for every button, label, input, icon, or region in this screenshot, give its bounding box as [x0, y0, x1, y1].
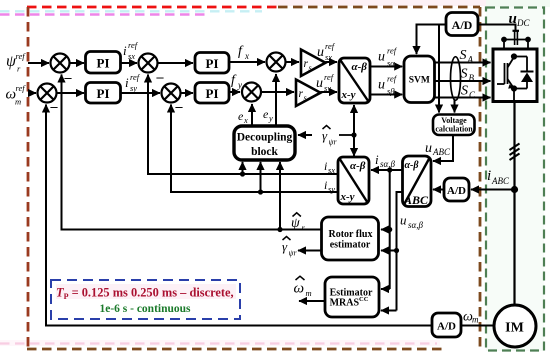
red dashed top border (control system boundary) [27, 6, 278, 9]
svg-text:x: x [243, 115, 248, 125]
svg-text:u: u [378, 50, 385, 65]
svg-text:S: S [460, 48, 467, 63]
PI controller PI1 [86, 52, 121, 74]
wire PI1 to S3 [121, 62, 138, 64]
power section background (inverter/motor zone) [486, 7, 544, 351]
wire e_x to M2 [251, 104, 253, 126]
svg-text:ω: ω [294, 281, 305, 297]
wire B1 to SVM upper [370, 66, 402, 68]
svg-text:ref: ref [325, 41, 336, 51]
svg-text:i: i [125, 75, 129, 90]
label i_sx [324, 159, 335, 175]
svg-text:γ: γ [282, 239, 288, 254]
wire i_s alpha beta down branch [389, 170, 391, 289]
brown dashed bottom border [27, 348, 444, 351]
wire u branch into MRAS estimator [381, 310, 397, 312]
pink dashed line top [0, 13, 208, 15]
wire omega hat output arrow [299, 300, 325, 302]
svg-text:ψr: ψr [289, 249, 298, 258]
svg-text:α-β: α-β [352, 61, 368, 73]
wire M1 to gain T1 [286, 61, 300, 63]
label i_s alpha beta [375, 152, 395, 169]
label psi_r ref [6, 51, 26, 74]
svg-text:sx: sx [325, 52, 332, 62]
junction dot i_s alpha beta tap [387, 167, 392, 172]
svg-text:–: – [175, 100, 184, 115]
summing junction S3 [139, 54, 158, 73]
wire gamma output arrow [298, 250, 322, 252]
label e_y [263, 107, 273, 123]
junction dot u branch [394, 248, 399, 253]
svg-text:m: m [306, 288, 312, 298]
svg-text:u: u [509, 11, 517, 27]
label gamma hat psi r (decoupling input) [322, 126, 337, 147]
wire node to A/D current [471, 189, 515, 191]
svg-text:ref: ref [387, 46, 398, 56]
svg-text:DC: DC [516, 18, 530, 28]
svg-text:sx: sx [128, 51, 135, 61]
svg-text:–: – [50, 100, 59, 115]
inverter block [493, 49, 537, 102]
wire u_s alpha beta from B3 [397, 192, 403, 311]
junction dot to flux estimator [387, 227, 392, 232]
svg-text:ref: ref [387, 74, 398, 84]
label i_sy [324, 178, 335, 194]
wire A/D to ABC transform [433, 189, 444, 191]
svg-text:ref: ref [128, 40, 139, 50]
wire PI3 to M1 [229, 61, 265, 63]
label u_s alpha beta [400, 213, 423, 231]
svg-text:s: s [309, 64, 312, 73]
wire u_DC branch to voltage calculation [438, 25, 440, 113]
label u_s alpha ref [378, 46, 398, 69]
svg-text:x-y: x-y [341, 89, 356, 101]
wire i branch into rotor flux estimator [381, 229, 390, 231]
svg-text:u: u [425, 141, 432, 156]
transform block B1 alpha-beta to x-y [339, 58, 370, 103]
wire gamma up into B1 [353, 105, 355, 135]
three-phase cable slashes [510, 144, 520, 161]
svg-text:S: S [461, 84, 468, 99]
label e_x [238, 109, 248, 125]
node i_ABC tap [511, 186, 518, 193]
wire gamma down into B2 [353, 135, 355, 156]
wire i_sy from B2 to S4 [171, 105, 338, 193]
wire B3 to B2 (i_s alpha beta) [371, 169, 403, 171]
bottom pink tint strip [0, 340, 440, 346]
wire gamma into decoupling [339, 134, 354, 136]
wire psi into decoupling block [279, 162, 281, 230]
svg-text:ref: ref [130, 72, 141, 82]
wire PI2 to S4 [121, 92, 161, 94]
IGBT Q1 with freewheeling diode D1 [497, 54, 534, 101]
wire i_sx into decoupling block [242, 162, 244, 174]
svg-text:TP = 0.125 ms 0.250 ms – discr: TP = 0.125 ms 0.250 ms – discrete, [56, 286, 234, 302]
svg-text:γ: γ [322, 128, 328, 143]
multiplier junction M1 [267, 53, 286, 72]
MRAS estimator block [325, 277, 379, 317]
A/D converter bottom (speed) [432, 313, 461, 337]
gain block T2 rs [296, 80, 321, 107]
svg-text:A/D: A/D [447, 185, 466, 197]
wire PI4 to M2 [229, 91, 240, 93]
wire T1 to transform block B1 [326, 61, 338, 63]
label omega m (speed) [463, 310, 479, 325]
junction dot i_sx to decoupling [240, 171, 245, 176]
svg-text:PI: PI [206, 56, 219, 71]
A/D converter middle (current) [444, 178, 469, 201]
wire i_sx from B2 to S3 [148, 75, 338, 175]
svg-text:ψ: ψ [291, 216, 300, 231]
cyan dashed line (sampling boundary) [0, 10, 262, 12]
svg-text:sα: sα [387, 58, 395, 68]
svg-text:i: i [324, 178, 327, 192]
svg-text:i: i [324, 159, 327, 173]
svg-text:i: i [487, 168, 491, 184]
svg-text:ABC: ABC [432, 147, 451, 157]
svg-text:m: m [15, 97, 21, 107]
decoupling block [234, 126, 295, 160]
svg-text:A/D: A/D [452, 18, 473, 32]
wire S1 to PI1 [70, 62, 85, 64]
brown dashed top border (converter boundary) [278, 6, 480, 9]
svg-text:A/D: A/D [437, 321, 456, 333]
svg-text:s: s [304, 94, 307, 103]
svg-text:α-β: α-β [350, 160, 366, 172]
wire IM to A/D speed [461, 325, 494, 327]
brick dashed left border [27, 7, 30, 349]
svg-text:i: i [123, 43, 127, 58]
label i_sy ref [125, 72, 141, 93]
svg-text:IM: IM [505, 321, 524, 336]
svg-text:Rotor flux: Rotor flux [329, 229, 373, 240]
pink dashed line bottom [0, 342, 437, 344]
svg-text:i: i [375, 152, 379, 167]
wire SVM to inverter S_A [435, 62, 491, 64]
summing junction S4 [162, 84, 181, 103]
svg-text:calculation: calculation [435, 125, 473, 134]
PI controller PI2 [86, 83, 121, 104]
svg-text:y: y [237, 80, 242, 90]
svg-text:block: block [251, 146, 278, 158]
label S_A [460, 48, 474, 65]
voltage calculation block [433, 115, 475, 136]
label f_x [238, 44, 249, 61]
svg-text:u: u [378, 78, 385, 93]
svg-text:PI: PI [97, 56, 110, 71]
SVM block [404, 56, 435, 103]
svg-text:sy: sy [328, 184, 335, 194]
label gamma hat psi r (output) [282, 237, 297, 258]
wire SVM to inverter S_C [435, 97, 491, 99]
wire voltage calculation to ABC transform (u_ABC) [433, 135, 453, 161]
svg-text:u: u [400, 213, 407, 228]
green dashed box (physical plant boundary) [486, 8, 544, 351]
junction dot i_sy to decoupling [258, 189, 263, 194]
svg-text:sx: sx [328, 165, 335, 175]
svg-text:–: – [64, 71, 73, 86]
svg-text:α-β: α-β [405, 160, 420, 171]
label u_sx ref [317, 41, 336, 62]
induction motor IM [494, 305, 536, 347]
svg-text:sα,β: sα,β [380, 159, 395, 169]
multiplier junction M2 [242, 83, 261, 102]
wire B1 to SVM lower [370, 94, 402, 96]
gamma psi r node and wires [351, 132, 356, 137]
wire e_y to M1 [275, 74, 277, 126]
blue dashed annotation box [51, 280, 240, 319]
svg-text:f: f [231, 73, 237, 88]
wire psi_r feedback to S1 [62, 75, 322, 230]
svg-text:S: S [461, 67, 468, 82]
label f_y [231, 73, 242, 90]
svg-text:ref: ref [16, 51, 27, 61]
transform block B2 alpha-beta to x-y (currents) [338, 157, 369, 204]
wire u branch into rotor flux estimator [381, 250, 397, 252]
wire omega feedback to S2 [46, 105, 432, 326]
svg-text:r: r [17, 64, 21, 74]
label psi hat r (flux feedback) [291, 213, 306, 233]
svg-text:ref: ref [16, 83, 27, 93]
wire A/D to SVM (u_DC sample) [417, 25, 447, 55]
svg-text:PI: PI [206, 86, 219, 101]
svg-text:ABC: ABC [403, 193, 429, 207]
bundling ellipse over S wires [451, 57, 461, 101]
label u_s beta ref [378, 74, 398, 97]
label i_ABC [487, 168, 510, 186]
svg-text:C: C [469, 90, 476, 100]
svg-text:–: – [156, 70, 165, 85]
brown dashed right border [479, 7, 482, 349]
DC link capacitor [502, 31, 531, 49]
junction dot psi to decoupling [277, 227, 282, 232]
svg-text:1e-6 s - continuous: 1e-6 s - continuous [99, 303, 191, 315]
svg-text:A: A [467, 55, 474, 65]
svg-text:ref: ref [324, 72, 335, 82]
svg-text:y: y [268, 113, 273, 123]
label omega hat m [294, 276, 312, 298]
wire S bundle to voltage calculation [454, 100, 456, 113]
transform block B3 ABC to alpha-beta [403, 156, 432, 207]
svg-text:f: f [238, 44, 244, 59]
wire omega ref input [28, 92, 36, 94]
svg-text:x: x [244, 51, 249, 61]
wire S2 to PI2 [57, 92, 85, 94]
svg-text:sy: sy [324, 83, 331, 93]
svg-text:sy: sy [130, 83, 137, 93]
label S_C [461, 84, 476, 101]
label u_sy ref [316, 72, 335, 93]
wire SVM to inverter S_B [435, 80, 491, 82]
svg-text:Decoupling: Decoupling [237, 132, 293, 144]
gain block T1 rs [301, 50, 326, 77]
svg-text:estimator: estimator [330, 240, 371, 251]
A/D converter top (DC voltage) [446, 13, 478, 36]
top pink tint strip [270, 0, 486, 6]
svg-text:B: B [469, 73, 475, 83]
wire T2 to transform block B1 [321, 91, 338, 93]
wire S4 to PI4 [181, 92, 194, 94]
svg-text:u: u [317, 45, 324, 60]
summing junction S2 [38, 84, 57, 103]
svg-text:PI: PI [97, 86, 110, 101]
label u_DC [509, 11, 531, 28]
svg-text:r: r [302, 223, 306, 233]
wire i branch into MRAS estimator [381, 288, 390, 290]
svg-text:x-y: x-y [340, 191, 355, 203]
wire A/D to DC link [478, 25, 516, 32]
top mint tint strip [486, 0, 550, 7]
svg-text:sβ: sβ [387, 86, 395, 96]
label S_B [461, 67, 475, 84]
summing junction S1 [51, 54, 70, 73]
svg-text:ψr: ψr [329, 138, 338, 147]
PI controller PI4 [195, 83, 229, 104]
PI controller PI3 [195, 53, 229, 74]
label omega_m ref [6, 83, 27, 107]
svg-text:m: m [472, 315, 479, 325]
wire i_sy into decoupling block [260, 162, 262, 192]
wire S3 to PI3 [158, 62, 194, 64]
svg-text:u: u [316, 76, 323, 91]
motor cable wire [513, 102, 515, 306]
svg-text:sα,β: sα,β [408, 220, 423, 230]
wire M2 to gain T2 [261, 91, 294, 93]
rotor flux estimator block [322, 217, 379, 260]
svg-text:SVM: SVM [409, 76, 430, 86]
wire psi ref input [28, 62, 49, 64]
svg-text:ABC: ABC [491, 176, 510, 186]
label u_ABC [425, 141, 451, 157]
label i_sx ref [123, 40, 139, 61]
